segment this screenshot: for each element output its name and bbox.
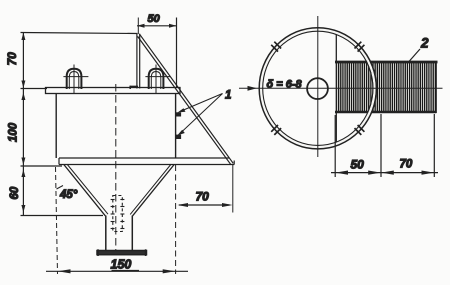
dashed ext right for 150 and 70 — [175, 165, 177, 274]
left dimension chain vertical line — [22, 33, 24, 216]
dim line 70 bottom — [179, 204, 230, 206]
outlet tube left — [105, 216, 107, 251]
svg-text:60: 60 — [9, 186, 21, 199]
bracket vertical left line — [136, 34, 138, 89]
ext line hatch left — [334, 115, 336, 177]
label 1 leader arrowhead upper — [178, 108, 186, 112]
arrow 70 left — [381, 171, 394, 175]
center dashed line — [115, 84, 117, 251]
45 degree tick — [57, 186, 64, 190]
hatched drum — [337, 61, 437, 113]
rim tick upper-right — [355, 42, 365, 52]
ext line hatch middle — [380, 114, 382, 177]
outlet tube right — [131, 216, 133, 251]
arrow up at 92 — [21, 93, 25, 101]
bottom plate left cap — [58, 158, 60, 165]
ext line right of 70 dim (bracket tip) — [232, 165, 234, 213]
svg-text:70: 70 — [196, 190, 210, 204]
ext line plate level — [21, 165, 63, 167]
delta leader arrowhead — [248, 86, 258, 91]
underline of 150 — [112, 270, 140, 272]
label 1 leader lower — [180, 94, 223, 134]
bracket vertical ext — [137, 18, 139, 35]
dim line 50-70 — [331, 172, 438, 174]
bracket foot horizontal — [130, 85, 139, 87]
body right side — [175, 94, 177, 159]
bolt left outer arch — [67, 69, 82, 89]
bolt right center line — [155, 65, 157, 94]
svg-text:70: 70 — [5, 52, 19, 66]
svg-text:70: 70 — [400, 159, 413, 171]
outer circle — [259, 28, 376, 149]
gusset diagonal inner — [138, 36, 231, 164]
rim tick lower-left — [271, 125, 281, 135]
dashed ext left for 150 — [56, 167, 58, 274]
cone right inner — [130, 165, 171, 215]
svg-text:100: 100 — [8, 122, 20, 142]
svg-text:50: 50 — [148, 13, 161, 25]
top dim 50: dimension line — [137, 25, 177, 27]
bolt right inner arch — [151, 72, 161, 90]
svg-text:δ = 6-8: δ = 6-8 — [267, 79, 303, 91]
bolt right horizontal line — [145, 76, 170, 78]
ext line flange top level — [21, 88, 48, 90]
bottom flange bar — [97, 251, 147, 255]
arrow left tip 137 — [137, 24, 145, 28]
arrow down at 88 — [21, 81, 25, 89]
cone left inner — [67, 165, 108, 215]
vertical centerline — [317, 16, 319, 157]
arrow 150 left — [58, 269, 71, 273]
arrow 70 left — [177, 203, 188, 207]
arrow 150 right — [163, 269, 176, 273]
arrow up at 32.5 — [21, 33, 25, 41]
arrow down at 165 — [21, 158, 25, 166]
arrow 50 right — [368, 171, 381, 175]
ext line hatch right — [433, 114, 435, 177]
ext line top (bracket top level) — [21, 33, 138, 34]
rim tick upper-left — [271, 42, 281, 52]
cone right outer — [133, 165, 175, 216]
label 1 leader upper — [180, 94, 223, 112]
white gap between circle arcs — [261, 29, 375, 147]
dim line 150 — [46, 270, 188, 272]
rim tick lower-right — [355, 125, 365, 135]
chord line — [335, 32, 337, 144]
gate ticks left — [111, 200, 115, 229]
horizontal centerline — [239, 87, 443, 89]
label 1 leader arrowhead lower — [177, 130, 185, 136]
arrow 70 right — [222, 203, 233, 207]
bracket foot vertical — [129, 86, 131, 89]
label 2 leader — [409, 49, 420, 62]
arrow 50 left — [335, 171, 348, 175]
ext line right of 50 dim — [176, 18, 178, 88]
drum top edge — [335, 61, 438, 64]
arrow down at 215 — [21, 205, 25, 213]
body left side — [55, 94, 57, 159]
drum right edge — [435, 61, 437, 113]
bolt left inner arch — [69, 72, 79, 90]
center hole — [307, 78, 328, 99]
svg-text:150: 150 — [111, 258, 132, 272]
ext line cone bottom level — [21, 215, 104, 217]
arrow 70 right — [422, 171, 435, 175]
bottom flange right tick — [145, 249, 147, 256]
top flange plate — [46, 88, 181, 94]
bottom plate right cap — [233, 161, 235, 165]
drum bottom edge — [335, 111, 436, 114]
bracket vertical right line — [139, 34, 141, 89]
arrow up at 170 — [21, 170, 25, 178]
bolt left horizontal line — [63, 76, 88, 78]
gusset diagonal outer — [139, 34, 233, 164]
svg-text:45°: 45° — [59, 189, 78, 201]
bolt right outer arch — [149, 69, 164, 89]
hidden gate dashed rect — [113, 196, 123, 232]
bottom plate bottom line — [59, 164, 234, 166]
bolt left center line — [73, 65, 75, 94]
cone left outer — [64, 165, 106, 216]
svg-text:50: 50 — [351, 157, 365, 171]
inner circle — [263, 31, 373, 145]
bottom flange left tick — [97, 249, 99, 256]
svg-text:1: 1 — [225, 90, 231, 102]
clip square lower — [176, 135, 182, 139]
bottom plate top line — [59, 157, 229, 159]
clip square upper — [176, 112, 182, 116]
arrow right tip 176.5 — [169, 24, 177, 28]
gate ticks right — [120, 200, 124, 229]
svg-text:2: 2 — [420, 36, 429, 51]
